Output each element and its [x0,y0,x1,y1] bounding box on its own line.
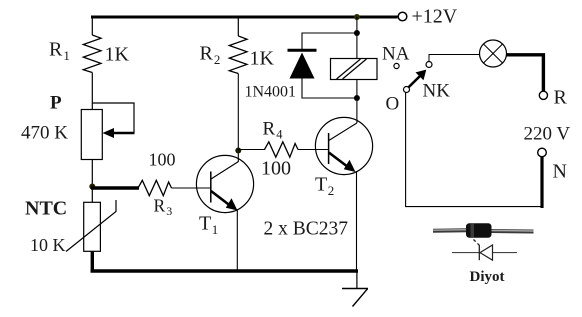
svg-text:2 x BC237: 2 x BC237 [264,219,349,240]
junction dot T1 collector node [235,148,241,154]
diode photo left lead [433,228,468,233]
svg-text:NA: NA [382,44,410,65]
terminal N [538,148,547,157]
svg-text:1N4001: 1N4001 [245,84,297,101]
wire R2 top lead [237,17,239,36]
wire R4 to T2 base [298,149,329,151]
svg-text:1K: 1K [105,44,130,66]
transistor Q2 T2 circle [315,117,372,174]
lamp X stroke 1 [484,44,503,63]
contact NK [426,62,432,68]
transistor T1 emitter stroke [211,191,230,206]
diode photo right lead highlight [490,230,534,233]
wire R1 bottom to pot top [91,73,93,111]
junction dot diode bottom [354,95,360,101]
transistor T2 emitter arrowhead [344,160,356,172]
diode photo left lead highlight [433,229,468,232]
svg-text:+12V: +12V [412,6,458,28]
junction dot NTC node [89,184,95,190]
diode symbol triangle [480,245,493,260]
terminal R [539,91,547,99]
wire pot bottom to NTC junction [91,160,93,189]
terminal +12V [398,12,407,21]
wire N terminal down (thick) [540,157,543,208]
junction dot rail-relay [354,14,360,20]
wire T2 collector to relay [356,98,358,123]
svg-text:220 V: 220 V [524,124,571,145]
wire pot wiper arrow shaft [111,132,135,135]
relay diagonal stripe 1 [337,59,361,79]
wire NK to lamp [429,55,480,62]
wire diode bottom branch [302,79,357,99]
wire node to R4 [238,149,265,151]
wire lamp to R terminal (thick) [507,55,544,92]
thermistor NTC diagonal stroke [66,200,116,252]
transistor T2 base bar [328,133,330,164]
svg-text:100: 100 [149,150,176,170]
svg-text:P: P [50,93,62,114]
pot wiper arrowhead [103,128,115,138]
svg-text:R: R [554,87,568,109]
svg-text:470 K: 470 K [21,123,68,144]
wire bottom ground rail [91,269,359,272]
wire rail to relay top [356,17,358,59]
svg-text:NTC: NTC [25,198,67,220]
svg-text:O: O [386,94,400,115]
resistor R2 [229,36,247,74]
wire ground stub [356,271,358,289]
lamp X stroke 2 [484,44,503,63]
relay diagonal stripe 2 [343,59,367,79]
diode symbol cathode bar [478,245,480,260]
contact NA [394,63,399,68]
svg-text:10 K: 10 K [30,235,66,255]
transistor Q1 T1 circle [196,155,253,212]
diode symbol lead line [452,252,517,254]
wire T1 emitter to ground rail [236,210,238,270]
wire NTC bottom (thick) [91,252,94,272]
wire R3 to T1 base [172,187,211,189]
potentiometer P body [81,110,102,160]
svg-text:100: 100 [261,158,291,180]
transistor T2 collector stroke [329,123,357,141]
wire diode top branch [302,33,357,49]
wire top rail +12V [91,16,398,19]
ground [342,289,368,307]
lamp L1 circle [480,40,507,67]
diode callout dashed line [474,240,482,248]
resistor R3 [138,180,172,195]
switch lever shaft [408,76,420,88]
thermistor NTC body [84,202,101,251]
thermistor NTC lead top [91,188,93,202]
contact O common [404,87,410,93]
svg-text:N: N [553,161,567,183]
transistor T1 collector stroke [211,162,239,180]
wire pot wiper branch [92,103,134,133]
switch lever arrowhead [416,70,427,81]
diode photo body band [471,224,475,237]
resistor R1 [83,35,101,73]
transistor T2 emitter stroke [329,153,348,168]
diode D1 1N4001 triangle [290,53,315,79]
junction dot diode top [354,30,360,36]
transistor T1 base bar [210,172,212,203]
wire R2 bottom to T1 collector node [237,74,239,163]
relay K1 coil body [331,59,378,80]
svg-text:1K: 1K [250,48,275,70]
wire relay bottom to node [356,80,358,99]
resistor R4 [265,142,299,157]
svg-text:Diyot: Diyot [470,269,505,285]
diode photo right lead [490,229,534,234]
diode D1 1N4001 cathode bar [288,49,317,52]
wire NTC node to R3 (thick) [91,186,139,189]
svg-text:NK: NK [423,81,451,102]
transistor T1 emitter arrowhead [226,198,238,210]
wire R1 left corner drop [91,17,93,35]
wire bottom return to O [406,93,544,207]
wire T2 emitter to ground rail [356,171,358,270]
diode photo body [466,223,492,237]
